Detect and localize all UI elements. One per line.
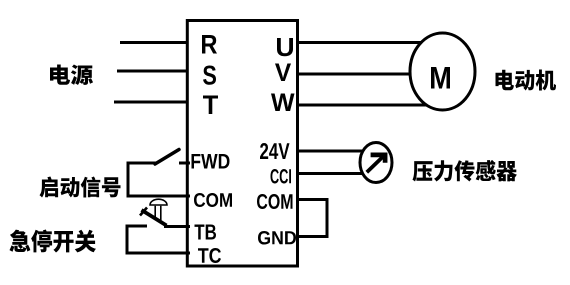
- terminal label S: [203, 66, 216, 85]
- terminal label U: [277, 38, 293, 56]
- terminal label W: [271, 94, 295, 112]
- terminal label 24V: [260, 143, 290, 159]
- terminal label COM right: [257, 194, 293, 209]
- wire S phase input: [117, 70, 190, 73]
- wire V output to motor: [296, 73, 412, 76]
- wire R phase input: [120, 41, 190, 44]
- label 电动机 (motor): [496, 70, 557, 91]
- emergency stop stem: [155, 206, 161, 222]
- terminal label T: [203, 96, 218, 115]
- emergency stop mushroom cap: [150, 199, 167, 205]
- wire TB-TC loop with emergency stop: [127, 226, 190, 253]
- label 急停开关 (emergency stop switch): [10, 230, 97, 253]
- label 压力传感器 (pressure sensor): [413, 160, 518, 182]
- switch blade (start signal): [155, 150, 179, 165]
- wire W output to motor: [296, 104, 432, 107]
- terminal label TB: [195, 225, 217, 240]
- wire T phase input: [114, 101, 190, 104]
- motor circle: [410, 33, 475, 110]
- label 电源 (power supply): [50, 65, 93, 86]
- pressure sensor arrowhead: [371, 155, 386, 163]
- terminal label R: [202, 35, 217, 54]
- pressure sensor circle: [360, 143, 392, 183]
- wire CCI to sensor: [296, 172, 370, 175]
- terminal label GND: [258, 231, 296, 245]
- emergency stop cross mark at blade tip: [140, 208, 147, 216]
- terminal label COM left: [194, 193, 232, 207]
- terminal label FWD: [192, 154, 230, 169]
- terminal label V: [275, 64, 291, 82]
- terminal label CCI: [271, 169, 292, 184]
- wire U output to motor: [296, 41, 425, 44]
- wire COM-GND jumper loop: [296, 200, 327, 237]
- wire FWD-COM loop with start switch: [128, 163, 190, 196]
- motor letter M: [431, 67, 450, 89]
- switch right contact stub to FWD: [179, 162, 190, 165]
- emergency stop right contact to TB: [164, 225, 190, 228]
- emergency stop blade: [142, 210, 167, 226]
- pressure sensor arrow shaft: [367, 157, 383, 173]
- terminal label TC: [198, 248, 221, 263]
- wire 24V to sensor: [296, 150, 370, 153]
- label 启动信号 (start signal): [40, 177, 121, 198]
- inverter box: [187, 21, 297, 267]
